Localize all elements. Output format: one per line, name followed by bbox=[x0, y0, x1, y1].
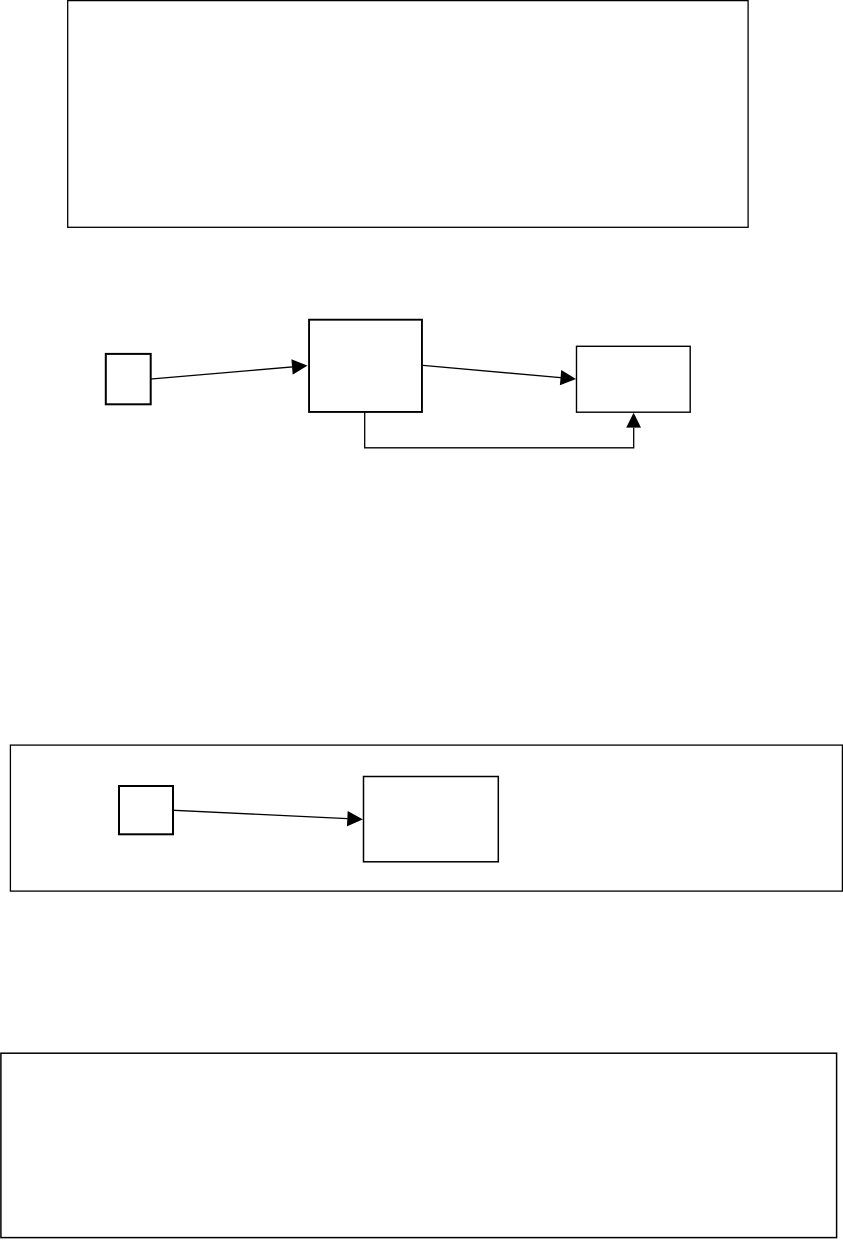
arrowhead up into right box bottom bbox=[626, 413, 641, 428]
wire: arrow from small box to middle box bbox=[151, 367, 292, 379]
diagram 1: middle process box bbox=[309, 320, 422, 412]
wire: arrow from middle box to right box bbox=[423, 365, 561, 377]
diagram 1: small source box bbox=[106, 354, 151, 404]
wire: feedback line from bottom of middle box to bottom of right box bbox=[365, 413, 634, 448]
bottom empty text box bbox=[1, 1053, 837, 1237]
arrowhead into middle box bbox=[291, 359, 307, 374]
arrowhead into right box bbox=[560, 370, 576, 385]
second outer text box bbox=[10, 745, 842, 891]
diagram 2: target box bbox=[364, 777, 499, 862]
arrowhead into target box bbox=[347, 811, 363, 826]
wire: arrow from small box to target box bbox=[174, 810, 347, 818]
top empty text box bbox=[68, 1, 748, 228]
diagram 2: small source box bbox=[119, 786, 173, 834]
diagram 1: right output box bbox=[577, 346, 691, 412]
